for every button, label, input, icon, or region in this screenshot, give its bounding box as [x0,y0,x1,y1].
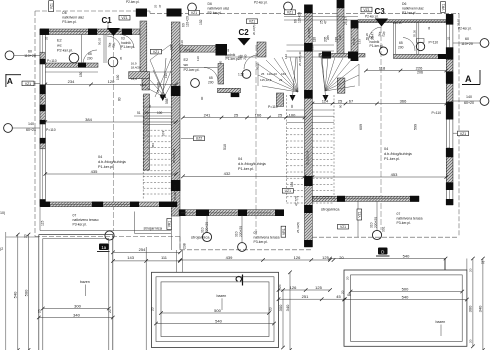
svg-text:90: 90 [200,96,204,100]
dim line middle unit 432 [183,175,305,177]
svg-text:E2: E2 [57,39,62,43]
svg-text:V21: V21 [340,225,346,229]
svg-text:VZ1: VZ1 [121,16,127,20]
svg-text:55,30: 55,30 [413,30,417,37]
svg-text:P1-ker.pl.: P1-ker.pl. [98,165,114,169]
svg-text:20: 20 [469,339,473,343]
svg-text:D6: D6 [62,11,66,15]
svg-text:65: 65 [209,76,213,80]
svg-text:20: 20 [38,309,42,313]
svg-text:540: 540 [13,291,18,298]
vz box party wall 1 leader [194,136,205,141]
wall stub C3 [351,28,358,53]
svg-text:20: 20 [151,307,155,311]
svg-text:A: A [7,76,13,86]
svg-text:P=110: P=110 [429,41,439,45]
vz box right top rotated [441,2,446,13]
svg-text:04: 04 [238,157,242,161]
svg-text:310: 310 [370,222,374,228]
svg-text:VZ1: VZ1 [363,8,369,12]
svg-text:07: 07 [397,212,401,216]
svg-text:234: 234 [68,79,75,84]
svg-text:20,32(5): 20,32(5) [252,25,256,35]
svg-text:45: 45 [347,293,351,297]
svg-text:natkriveni ulaz: natkriveni ulaz [208,7,230,11]
svg-text:35: 35 [119,56,123,60]
vz box C2 [247,19,258,24]
svg-text:23: 23 [279,78,283,82]
svg-text:P3-ker.pl.: P3-ker.pl. [208,11,222,15]
svg-text:P3-ker.pl.: P3-ker.pl. [254,240,268,244]
svg-text:43: 43 [427,26,431,30]
svg-text:67: 67 [349,98,354,103]
dim line bottom 540 right [330,258,446,260]
svg-text:P=110: P=110 [46,128,56,132]
party wall 1 lower thin lines [170,216,172,250]
svg-text:340: 340 [73,312,80,317]
vz box terrace left rotated [167,219,172,230]
svg-text:190: 190 [116,74,120,80]
svg-text:bazen: bazen [217,294,227,298]
svg-text:VZ1: VZ1 [191,11,197,15]
dim line left unit 435 [45,173,176,175]
svg-text:VR1: VR1 [441,4,445,11]
svg-text:1,50: 1,50 [238,72,244,76]
marker D [378,248,388,255]
bottom wall left unit [40,202,177,207]
svg-text:435: 435 [91,169,98,174]
svg-text:natkrivena terasa: natkrivena terasa [397,217,423,221]
svg-text:natkrivena terasa: natkrivena terasa [254,236,280,240]
toilet right unit [416,42,424,50]
svg-text:164: 164 [281,72,286,76]
svg-text:300: 300 [74,303,81,308]
section line C1 [113,36,115,231]
vz box top C1 [119,15,130,20]
hodnik line left unit [140,71,171,73]
svg-text:25: 25 [338,98,343,103]
svg-text:VR1: VR1 [168,221,172,228]
door arc entry C2 [244,55,258,69]
svg-text:118: 118 [311,45,315,50]
pool right inner [351,275,463,342]
svg-text:20: 20 [24,234,28,238]
svg-text:25,32(5),54: 25,32(5),54 [173,185,177,200]
svg-text:301: 301 [382,226,386,232]
svg-text:540: 540 [215,318,222,323]
svg-text:1a: 1a [101,245,106,250]
porch roof lines [284,15,358,17]
vz box C3 [361,7,372,12]
svg-text:190: 190 [164,73,168,78]
svg-text:20: 20 [145,111,149,115]
svg-text:126: 126 [290,285,297,290]
svg-text:366: 366 [400,98,407,103]
dim line right unit 118 226 [366,70,446,72]
stair arrow right unit [323,95,329,101]
svg-text:25: 25 [234,112,239,117]
vz box left edge [22,81,34,86]
svg-text:111: 111 [161,255,168,260]
svg-text:25: 25 [447,36,451,40]
newel wall right stair [337,78,345,93]
dim line terrace 254 [113,251,180,253]
stairs right unit winder fan [325,64,359,91]
svg-text:120: 120 [108,79,115,84]
svg-text:340: 340 [285,304,290,311]
svg-text:510: 510 [223,144,227,150]
svg-text:453: 453 [391,172,398,177]
vz box UZ1 [282,189,293,194]
svg-text:169,35: 169,35 [393,21,402,25]
pool middle dim 540 [156,323,274,325]
room line middle unit top [180,48,218,50]
utility circle right terrace [372,230,381,239]
svg-text:20: 20 [469,268,473,272]
svg-text:206: 206 [417,71,423,75]
svg-text:115: 115 [41,220,45,226]
svg-text:310: 310 [235,231,239,237]
svg-text:65: 65 [88,52,92,56]
pool right connector [444,259,446,271]
section marker A left [5,74,7,87]
svg-text:47: 47 [324,20,328,24]
svg-text:540: 540 [403,253,410,258]
svg-text:A: A [465,74,472,84]
door jamb C2 [257,42,266,57]
pool middle top dims [279,289,331,291]
svg-text:VZ1: VZ1 [25,82,31,86]
svg-text:51: 51 [137,111,141,115]
svg-text:E2: E2 [184,58,189,62]
svg-text:wc: wc [184,63,189,67]
bath wall right unit [319,54,365,58]
svg-text:60: 60 [28,49,32,53]
right outer wall [446,16,453,205]
svg-text:609: 609 [359,124,363,130]
svg-text:25,32(5),54: 25,32(5),54 [306,150,310,165]
svg-text:90: 90 [290,104,294,108]
svg-text:125: 125 [315,285,322,290]
roof overhang dashed outline [35,10,150,12]
svg-text:D6: D6 [208,2,212,6]
svg-text:439: 439 [226,255,233,260]
wc wall left unit [45,63,98,67]
svg-text:220+20: 220+20 [205,222,209,233]
svg-text:VZ1: VZ1 [153,50,159,54]
svg-text:45: 45 [148,104,152,108]
svg-text:04: 04 [98,155,102,159]
svg-text:598: 598 [165,98,169,104]
svg-text:20: 20 [278,284,282,288]
svg-text:P=110: P=110 [47,59,57,63]
stairs left unit winder fan [150,60,166,98]
strojarnica partition left [134,212,136,234]
svg-text:133: 133 [358,39,362,44]
svg-text:C2: C2 [239,28,250,37]
svg-text:P1-ker.pl.: P1-ker.pl. [238,167,254,171]
washer middle unit 2 [242,70,251,79]
vz box top-left rotated [49,1,54,12]
svg-text:118: 118 [313,37,317,42]
pool middle right dims [282,290,284,348]
entry wall stub left unit [140,21,147,72]
door arc hodnik left [120,34,134,48]
svg-text:wc: wc [57,44,62,48]
utility circle middle terrace [238,243,247,252]
svg-text:25: 25 [278,112,283,117]
svg-text:P=110: P=110 [432,111,442,115]
svg-text:15,30: 15,30 [352,38,356,45]
svg-text:d.b./blog/kuhinja: d.b./blog/kuhinja [384,152,413,156]
vz box strojarnica right rotated [357,209,362,220]
svg-text:18,4: 18,4 [140,83,146,87]
svg-text:20: 20 [269,307,273,311]
svg-text:P2-ker.pl.: P2-ker.pl. [365,15,379,19]
svg-text:P3-ker.pl.: P3-ker.pl. [73,223,87,227]
svg-text:200: 200 [398,46,404,50]
svg-text:strojarnica: strojarnica [191,235,210,240]
dim line bottom 439 [180,259,330,261]
svg-text:500: 500 [214,308,221,313]
pool left vertical dims [17,235,19,350]
svg-text:P3-ker.pl.: P3-ker.pl. [402,11,416,15]
stair arrow middle unit [290,95,296,101]
svg-text:VZ1: VZ1 [249,20,255,24]
svg-text:VZ1: VZ1 [287,11,293,15]
vz box left unit [151,49,162,54]
svg-text:strojarnica: strojarnica [321,207,340,212]
svg-text:152: 152 [199,19,203,25]
svg-text:104: 104 [290,181,294,187]
stairs right unit treads [313,109,335,111]
marker 1a [99,244,109,251]
svg-text:125: 125 [322,255,329,260]
pool corner circle left [105,231,114,240]
svg-text:P3-ker.pl.: P3-ker.pl. [62,20,76,24]
svg-text:205: 205 [326,35,330,40]
svg-text:d.b./blog/kuhinja: d.b./blog/kuhinja [238,162,267,166]
pool left dim 340 [39,317,113,319]
svg-text:25,47: 25,47 [344,17,348,25]
bath bottom wall right unit [394,54,447,58]
window top-left [49,31,88,33]
svg-text:126: 126 [294,255,301,260]
svg-text:d.b./blog/kuhinja: d.b./blog/kuhinja [98,160,127,164]
svg-text:25,32(5): 25,32(5) [307,28,311,38]
svg-text:50,25: 50,25 [98,37,102,45]
svg-text:16,9: 16,9 [131,77,137,81]
svg-text:25,32(5): 25,32(5) [156,82,160,93]
svg-text:VZ1: VZ1 [358,211,362,217]
svg-text:(2: (2 [0,247,3,251]
svg-text:150: 150 [79,71,83,77]
pool right dim 540 [344,299,467,301]
svg-text:25: 25 [261,72,265,76]
svg-text:310: 310 [201,227,205,233]
svg-text:432: 432 [224,171,231,176]
svg-text:25,02: 25,02 [457,18,461,26]
top wall middle unit [180,46,218,53]
terrace edge left unit [39,207,41,231]
door arc bath right [403,38,415,52]
pool middle mid [156,277,274,342]
pool right outer [344,270,467,346]
svg-text:bazen: bazen [436,320,446,324]
door arc entry C3 [369,27,382,41]
svg-text:P1-ker.pl.: P1-ker.pl. [384,157,400,161]
newel wall middle stair [276,93,283,106]
pool right side dims [472,259,474,347]
newel wall left stair [142,74,150,90]
dim line left unit upper [45,83,176,85]
grid circle left top [5,51,14,60]
svg-text:P2-ker.pl.: P2-ker.pl. [57,49,73,53]
svg-text:220+20: 220+20 [239,226,243,237]
top wall right unit [358,20,446,23]
svg-text:80: 80 [118,97,122,101]
svg-text:220+20: 220+20 [374,217,378,228]
svg-text:116+20: 116+20 [267,72,277,76]
svg-text:110+20: 110+20 [186,16,190,27]
svg-text:P=110: P=110 [185,49,195,53]
left outer wall [40,29,45,203]
stairs middle unit edge dashed [286,95,288,203]
svg-text:65: 65 [399,41,403,45]
top wall left unit [40,29,140,35]
pool left outer [39,234,113,236]
svg-text:P3-ker.pl.: P3-ker.pl. [397,221,411,225]
svg-text:10): 10) [0,211,5,215]
svg-text:P2-ker.pl.: P2-ker.pl. [126,0,140,4]
vz box terrace mid rotated [281,226,286,237]
strojarnica partition right [357,202,359,238]
grid circle top C2right [284,2,293,11]
svg-text:25: 25 [447,146,451,150]
svg-text:456: 456 [151,143,155,148]
svg-text:251: 251 [302,294,309,299]
svg-text:P2-ker.pl.: P2-ker.pl. [184,68,200,72]
dim line right unit 453 [313,176,447,178]
washer left unit 1 [69,53,79,63]
svg-text:18,4/28: 18,4/28 [131,66,141,70]
svg-text:P2-ker.pl.: P2-ker.pl. [254,0,268,4]
washer right unit [380,47,388,55]
svg-text:20: 20 [346,276,350,280]
svg-text:natkriveni ulaz: natkriveni ulaz [402,7,424,11]
svg-text:300: 300 [468,305,473,312]
svg-text:25,32(5),54: 25,32(5),54 [172,148,176,163]
vz box right edge [458,131,469,136]
wc partition left unit [81,35,83,64]
door arc wc left [83,50,97,63]
svg-text:254: 254 [139,247,146,252]
pool right dim 500 [351,291,463,293]
party wall 1 [171,22,180,216]
svg-text:20: 20 [339,255,344,260]
svg-text:110+20: 110+20 [461,42,473,46]
svg-text:241: 241 [204,112,211,117]
washer middle unit 1 [191,79,200,88]
svg-text:238: 238 [183,243,187,249]
svg-text:P1-ker.pl.: P1-ker.pl. [370,44,384,48]
svg-text:143: 143 [127,255,134,260]
pool middle inner [161,282,269,337]
svg-text:150,35: 150,35 [106,21,110,30]
svg-text:P=110: P=110 [268,105,278,109]
svg-text:166: 166 [255,112,262,117]
washer left unit 2 [108,57,118,67]
svg-text:114: 114 [322,98,329,103]
svg-text:100: 100 [289,112,296,117]
svg-text:natkriveno teraso: natkriveno teraso [73,218,99,222]
entry wall stub right unit [337,8,344,57]
utility circle left terrace [202,232,211,241]
section line C3 [380,27,382,230]
stairs middle unit winder fan [258,64,298,92]
svg-text:bazen: bazen [80,280,90,284]
svg-text:VZ1: VZ1 [460,132,466,136]
grid circle left mid [4,124,13,133]
pool left inner [43,238,109,240]
svg-text:140: 140 [28,122,34,126]
svg-text:25: 25 [40,96,44,100]
party wall 2 [305,13,313,247]
svg-text:22: 22 [481,261,485,265]
svg-text:60+20: 60+20 [464,101,474,105]
terrace lines middle [176,250,178,272]
stairs middle unit treads [287,109,305,111]
svg-text:07: 07 [254,231,258,235]
stairs right unit edge dashed [333,95,335,203]
stair arrow left unit [160,95,167,102]
svg-text:110+20: 110+20 [298,12,302,23]
grid circle right top [480,39,489,48]
section line C2 [255,45,257,236]
svg-text:540: 540 [402,294,409,299]
svg-text:340: 340 [478,305,483,312]
pool middle dim 500 [161,312,269,314]
svg-text:04: 04 [384,147,388,151]
dim line left unit 384 [45,121,176,123]
svg-text:115,12,6: 115,12,6 [260,78,272,82]
dim line right unit 366 [313,103,447,105]
pool middle outer [152,272,279,347]
stairs left unit edge dashed [142,95,144,199]
bottom wall right unit [313,196,420,201]
svg-text:D6: D6 [402,2,406,6]
svg-text:25,32(5): 25,32(5) [296,222,300,233]
svg-text:07: 07 [73,214,77,218]
svg-text:110: 110 [196,56,200,61]
svg-text:60+20: 60+20 [26,128,36,132]
svg-text:200: 200 [87,57,93,61]
svg-text:384: 384 [85,117,92,122]
svg-text:55,20: 55,20 [365,33,369,40]
svg-text:118: 118 [379,65,386,70]
svg-text:strojarnica: strojarnica [144,226,163,231]
svg-text:110+20: 110+20 [24,54,36,58]
svg-text:P1-ker.pl.: P1-ker.pl. [121,45,135,49]
svg-text:natkriveni ulaz: natkriveni ulaz [62,15,84,19]
svg-text:P2-ker.pl.: P2-ker.pl. [458,27,472,31]
svg-text:VZ1: VZ1 [49,3,53,9]
bath partition right unit [393,22,395,54]
grid circle right mid [480,97,489,106]
wc wall middle unit [218,64,224,85]
grid circle top C2left [188,3,197,12]
svg-text:110: 110 [180,40,184,45]
